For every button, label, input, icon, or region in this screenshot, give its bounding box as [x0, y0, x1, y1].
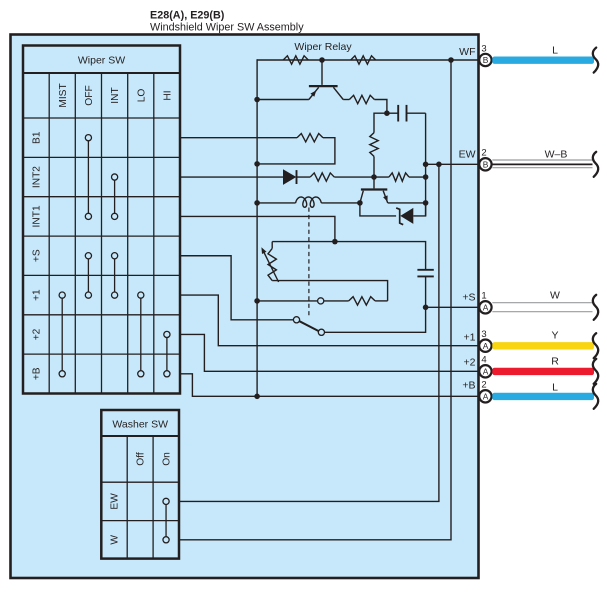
harness wire L2 break symbol — [593, 384, 598, 409]
contact circle on R6 wire — [318, 298, 324, 304]
svg-text:Wiper Relay: Wiper Relay — [294, 41, 352, 53]
wiper SW contact OFF: B1-INT1 — [85, 135, 91, 141]
harness wire W (white) from +S — [492, 302, 592, 304]
wire +S node down to park switch — [325, 307, 426, 332]
variable resistor VR1 arrow — [264, 252, 279, 282]
transistor Q1 base lead — [321, 60, 323, 85]
svg-text:1: 1 — [481, 291, 486, 302]
svg-text:OFF: OFF — [84, 85, 95, 105]
wire base node to R5 — [374, 176, 389, 178]
svg-text:E28(A), E29(B): E28(A), E29(B) — [150, 10, 225, 22]
wiper SW contact OFF: +S-+1 — [85, 253, 91, 259]
node base junction of Q1 on top rail — [319, 57, 325, 63]
wire R4 to INT2 node — [373, 156, 375, 177]
node Q2 emitter bus junction — [423, 200, 429, 206]
node EW washer-rail junction — [436, 162, 442, 168]
terminal WF connector circle — [479, 54, 491, 66]
svg-text:A: A — [483, 366, 489, 376]
wire EW rail to washer SW — [179, 164, 439, 501]
wire contact to R6 — [324, 300, 349, 302]
zener diode D2 triangle — [400, 208, 413, 224]
node +B rail end junction — [254, 394, 260, 400]
svg-text:LO: LO — [136, 89, 147, 103]
svg-text:2: 2 — [481, 148, 486, 159]
wire +B rail to coil — [257, 202, 296, 204]
node INT1 on C2 top wire — [332, 239, 338, 245]
harness wire Y break symbol — [593, 333, 598, 358]
node Q2 base junction — [371, 174, 377, 180]
wire +B rail to wiper contact — [257, 300, 317, 302]
wire C1 right plate to vertical bus — [407, 112, 426, 114]
wire +1 row to terminal — [180, 295, 485, 346]
wire B1 row to resistor — [180, 137, 297, 139]
wire +B rail (left vertical from top wire to +B wire) — [256, 59, 258, 396]
svg-text:W–B: W–B — [545, 149, 568, 161]
harness wire L (blue) from WF — [492, 57, 594, 64]
node WF junction — [448, 57, 454, 63]
svg-text:On: On — [162, 452, 173, 466]
svg-text:3: 3 — [481, 43, 486, 54]
harness wire W-B break symbol — [593, 152, 598, 177]
Wiper SW table grid lines — [23, 73, 180, 394]
svg-text:Off: Off — [136, 452, 147, 466]
svg-text:+S: +S — [462, 292, 475, 304]
transistor Q1 collector — [333, 87, 343, 99]
svg-text:+1: +1 — [32, 289, 43, 301]
wire C1 node to left plate — [387, 112, 398, 114]
zener diode D2 cathode bar — [396, 208, 403, 225]
park switch upper contact — [293, 317, 299, 323]
svg-text:Washer SW: Washer SW — [112, 419, 168, 431]
wire Q2 collector down to zener — [360, 203, 396, 216]
transistor Q2 base lead — [373, 177, 375, 188]
transistor Q1 emitter — [309, 87, 319, 99]
svg-text:INT2: INT2 — [32, 166, 43, 188]
wire coil to Q2 collector — [321, 202, 360, 204]
resistor R2 (top right) — [351, 56, 376, 64]
resistor R1 (top left) — [283, 56, 308, 64]
Washer SW table grid lines — [101, 436, 179, 559]
svg-text:HI: HI — [162, 90, 173, 100]
svg-text:MIST: MIST — [58, 83, 69, 107]
transistor Q2 base bar — [361, 188, 387, 190]
wire B1 resistor return to +B rail — [257, 138, 335, 164]
wire VR1 bottom to R6 right corner — [272, 281, 387, 301]
transistor Q2 collector — [360, 191, 363, 203]
svg-text:3: 3 — [481, 329, 486, 340]
svg-text:A: A — [483, 391, 489, 401]
wire Q1 collector to R3 — [343, 99, 349, 101]
harness wire Y (yellow) from +1 — [492, 342, 594, 349]
svg-text:B1: B1 — [32, 131, 43, 144]
wiper SW contact INT: INT2-INT1 — [112, 174, 118, 180]
svg-text:+2: +2 — [464, 357, 476, 369]
resistor R8 (B1 row) — [297, 134, 323, 142]
svg-text:A: A — [483, 302, 489, 312]
node R5 right bus junction — [423, 174, 429, 180]
node Q2 collector junction — [357, 200, 363, 206]
harness wire R (red) from +2 — [492, 368, 594, 375]
wire Q2 emitter to right bus — [388, 202, 426, 204]
node +S internal on +B rail — [254, 298, 260, 304]
harness wire W break symbol — [593, 295, 598, 320]
svg-text:W: W — [110, 535, 121, 545]
svg-text:W: W — [550, 290, 560, 302]
wire WF rail to washer SW — [179, 60, 451, 540]
wiper switch assembly outline box — [11, 35, 479, 579]
wire +B row to terminal — [180, 374, 485, 397]
harness wire W-B (white/black) from EW — [492, 159, 592, 161]
Wiper SW table header separator — [23, 72, 180, 74]
resistor R5 — [389, 173, 409, 181]
svg-text:Y: Y — [551, 330, 558, 342]
wire zener to right bus — [413, 203, 425, 216]
wiper SW contact HI: +2-+B — [164, 331, 170, 337]
svg-text:B: B — [483, 159, 489, 169]
wire park switch to +S row — [180, 256, 293, 320]
terminal +2 connector circle — [479, 365, 491, 377]
node Q1 emitter on +B rail — [254, 97, 260, 103]
terminal +1 connector circle — [479, 340, 491, 352]
svg-text:A: A — [483, 341, 489, 351]
capacitor C1 plates — [397, 105, 399, 122]
svg-text:L: L — [552, 45, 558, 57]
svg-text:EW: EW — [110, 493, 121, 510]
wire D1 to R7 — [297, 176, 311, 178]
svg-text:+S: +S — [32, 249, 43, 262]
wire +2 row to terminal — [180, 334, 485, 371]
svg-text:INT: INT — [110, 87, 121, 103]
svg-text:L: L — [552, 382, 558, 394]
Washer SW table outer border — [101, 410, 179, 559]
park switch lower contact — [318, 329, 324, 335]
svg-text:Wiper SW: Wiper SW — [78, 55, 125, 67]
dashed mechanical link (coil to park switch) — [308, 208, 310, 316]
washer SW contact On: EW-W — [163, 498, 169, 504]
terminal EW connector circle — [479, 158, 491, 170]
svg-text:4: 4 — [481, 355, 486, 366]
wire R5 to right bus — [409, 176, 426, 178]
svg-text:+1: +1 — [464, 332, 476, 344]
wire INT1 row to cap top wire — [180, 216, 335, 241]
capacitor C2 plates — [417, 269, 433, 271]
wire INT2 row to diode D1 — [180, 176, 283, 178]
svg-text:INT1: INT1 — [32, 205, 43, 227]
resistor R7 (INT2 row) — [310, 173, 334, 181]
terminal +S connector circle — [479, 301, 491, 313]
wiper SW contact MIST: +1-+B — [59, 292, 65, 298]
svg-text:2: 2 — [481, 380, 486, 391]
Wiper SW table outer border — [23, 46, 180, 394]
diode D1 — [283, 169, 296, 185]
transistor Q1 base bar — [309, 85, 338, 87]
wire R7 to base node — [334, 176, 374, 178]
svg-text:WF: WF — [459, 46, 475, 58]
wire R3 to C1 node — [374, 100, 387, 114]
wire top rail to WF — [257, 59, 485, 61]
harness wire R break symbol — [593, 359, 598, 384]
resistor R4 (vertical) — [370, 133, 378, 157]
terminal +B connector circle — [479, 390, 491, 402]
svg-text:+2: +2 — [32, 328, 43, 340]
svg-text:EW: EW — [459, 149, 476, 161]
wire +S node to terminal — [426, 306, 485, 308]
wire C2 top rail — [272, 242, 425, 270]
svg-text:+B: +B — [32, 367, 43, 380]
node EW bus junction — [423, 162, 429, 168]
park switch blade — [299, 321, 318, 331]
wiper SW contact INT: +S-+1 — [112, 253, 118, 259]
variable resistor VR1 (vertical) — [271, 242, 273, 249]
transistor Q2 emitter — [383, 191, 388, 203]
svg-text:R: R — [551, 356, 559, 368]
node coil junction on +B rail — [254, 200, 260, 206]
wire R6 to corner — [375, 300, 388, 302]
harness wire L break symbol — [593, 48, 598, 73]
wire C1 node to R4 — [374, 113, 387, 133]
node C1 left junction — [384, 110, 390, 116]
harness wire L (blue) from +B — [492, 393, 594, 400]
wire right vertical bus (C1 to zener corner) — [425, 113, 427, 216]
resistor R6 — [349, 297, 375, 305]
wire C2 bottom to +S node — [425, 276, 427, 307]
wire EW to terminal — [426, 163, 485, 165]
svg-text:+B: +B — [462, 380, 475, 392]
node +S junction — [423, 305, 429, 311]
Washer SW header separator — [101, 435, 179, 437]
svg-text:Windshield Wiper SW Assembly: Windshield Wiper SW Assembly — [150, 22, 304, 34]
node B1 return on +B rail — [254, 161, 260, 167]
resistor R3 (Q1 collector) — [349, 95, 374, 103]
inductor L1 (relay coil) — [296, 197, 322, 207]
wiper SW contact LO: +1-+B — [138, 292, 144, 298]
wire Q1 emitter to +B rail — [257, 99, 309, 101]
svg-text:B: B — [483, 55, 489, 65]
